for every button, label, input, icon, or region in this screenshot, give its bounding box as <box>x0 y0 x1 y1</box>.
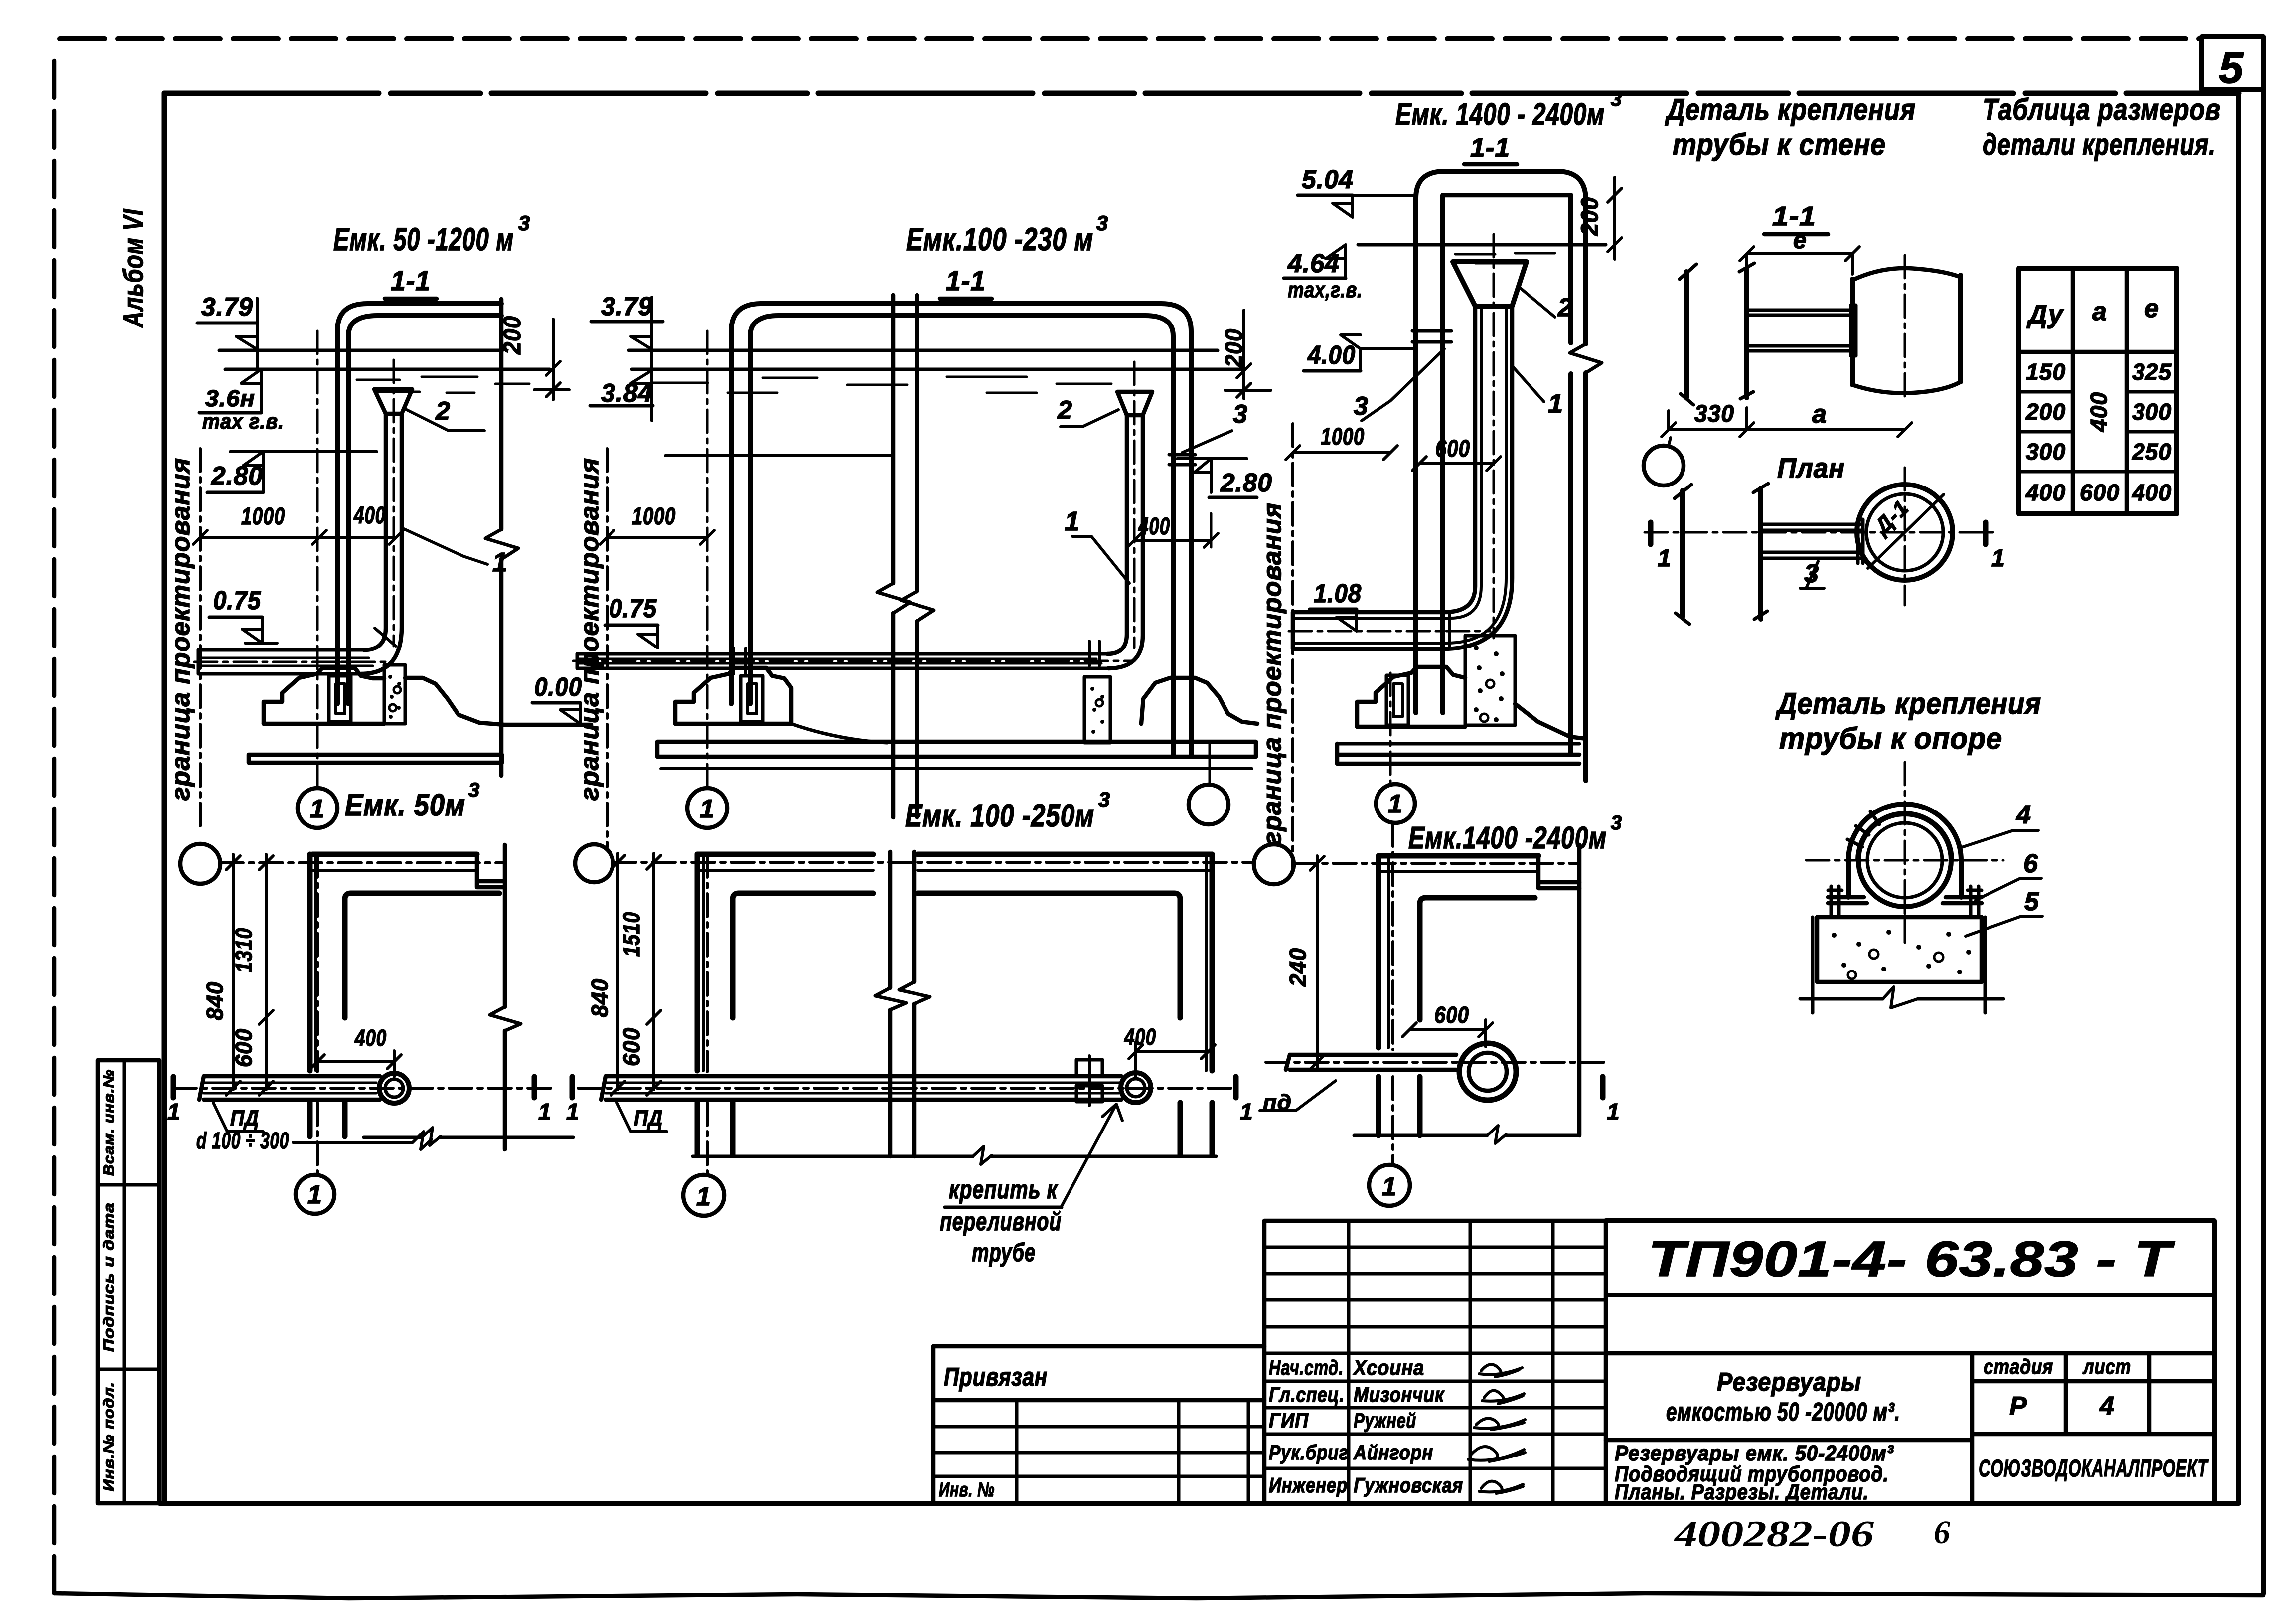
dim lines vertical <box>226 854 240 1095</box>
riser pipe 1 <box>364 414 386 650</box>
wall band horizontal <box>1380 853 1538 859</box>
svg-text:1: 1 <box>1991 545 2005 572</box>
outer right border <box>2261 37 2266 1594</box>
inner frame left <box>162 93 167 1503</box>
svg-text:6: 6 <box>2023 849 2038 878</box>
axis bubble bottom <box>1369 1165 1410 1206</box>
riser pipe (wide) <box>1444 306 1475 612</box>
axis bubble bottom <box>296 1175 334 1214</box>
wall horizontal band <box>312 852 477 857</box>
svg-text:1: 1 <box>566 1099 580 1125</box>
axis bubbles <box>575 844 613 882</box>
dim 200 vertical <box>1577 197 1603 236</box>
svg-text:1: 1 <box>167 1099 181 1125</box>
svg-text:Деталь крепления: Деталь крепления <box>1775 687 2041 720</box>
SECTION 2 <box>573 211 1293 867</box>
svg-text:трубы к опоре: трубы к опоре <box>1779 722 2002 755</box>
section cut marks <box>572 1077 1236 1098</box>
inlet pipe horizontal <box>577 652 1107 656</box>
svg-text:max,г.в.: max,г.в. <box>1288 278 1363 302</box>
staff table <box>1264 1221 1606 1503</box>
svg-text:0.75: 0.75 <box>609 594 657 623</box>
svg-text:2: 2 <box>1057 396 1072 425</box>
svg-text:3: 3 <box>1611 88 1622 110</box>
svg-text:детали крепления.: детали крепления. <box>1983 128 2216 161</box>
pipe circles <box>1858 814 1951 907</box>
svg-text:емкостью 50 -20000 м³.: емкостью 50 -20000 м³. <box>1666 1398 1900 1427</box>
tank outline <box>1416 171 1586 713</box>
table grid <box>2019 268 2177 514</box>
bottom boundary <box>693 1155 1216 1158</box>
svg-text:1: 1 <box>1607 1099 1620 1125</box>
axis lines to bubbles <box>706 331 709 788</box>
svg-text:Гл.спец.: Гл.спец. <box>1269 1383 1345 1406</box>
right match line <box>503 845 507 1149</box>
svg-text:Резервуары: Резервуары <box>1717 1368 1861 1397</box>
PLAN 2 <box>566 844 1254 1267</box>
svg-text:1: 1 <box>1658 545 1672 572</box>
svg-text:840: 840 <box>587 978 612 1017</box>
wall section <box>1686 268 1747 398</box>
signatures <box>1479 1364 1522 1377</box>
boundary line (граница проектирования) <box>199 449 202 830</box>
svg-text:Емк. 50м: Емк. 50м <box>345 788 465 822</box>
inlet pipe horizontal <box>198 648 364 652</box>
SUPPORT DETAIL <box>1775 687 2042 1013</box>
svg-text:Р: Р <box>2009 1392 2027 1421</box>
plan wall <box>1683 488 1761 619</box>
svg-text:трубы к стене: трубы к стене <box>1673 128 1886 161</box>
svg-text:ГИП: ГИП <box>1269 1409 1309 1432</box>
svg-text:Инженер: Инженер <box>1269 1473 1348 1497</box>
axis bubble 1 <box>298 788 337 828</box>
axis bubble 1 <box>687 788 727 828</box>
left support <box>675 668 791 724</box>
svg-text:Емк.100 -230 м: Емк.100 -230 м <box>906 221 1093 257</box>
dim 200 vertical <box>499 316 526 355</box>
svg-text:300: 300 <box>2132 399 2172 425</box>
svg-text:Рук.бриг: Рук.бриг <box>1269 1441 1349 1464</box>
svg-text:1: 1 <box>492 547 508 577</box>
funnel 2 <box>1453 262 1527 306</box>
svg-text:2.80: 2.80 <box>1220 469 1272 497</box>
plan centerlines <box>1645 468 1997 605</box>
svg-text:5: 5 <box>2024 887 2039 916</box>
svg-text:СОЮЗВОДОКАНАЛПРОЕКТ: СОЮЗВОДОКАНАЛПРОЕКТ <box>1979 1456 2209 1482</box>
svg-text:Емк.1400 -2400м: Емк.1400 -2400м <box>1408 821 1607 855</box>
weld stubs <box>1089 641 1099 666</box>
TITLE BLOCK <box>933 1221 2214 1555</box>
svg-text:1: 1 <box>1548 389 1563 419</box>
svg-text:400: 400 <box>2086 392 2112 432</box>
ground lines <box>1800 917 2003 1013</box>
svg-text:граница проектирования: граница проектирования <box>575 458 604 801</box>
svg-text:Мизончик: Мизончик <box>1354 1383 1445 1406</box>
svg-text:Инв. №: Инв. № <box>939 1479 995 1501</box>
outer left border <box>52 61 57 1593</box>
svg-text:1.08: 1.08 <box>1314 579 1362 608</box>
svg-text:3: 3 <box>1233 400 1248 429</box>
bottom-left stamp strip <box>98 1060 159 1503</box>
svg-text:1: 1 <box>307 1180 322 1209</box>
top dashed border <box>60 36 2202 41</box>
riser circle big <box>1459 1043 1516 1100</box>
clamp feet <box>1828 897 1982 903</box>
middle break lines <box>890 852 914 1156</box>
PLAN 1 <box>167 844 573 1214</box>
right wall band <box>918 852 1212 857</box>
svg-text:3: 3 <box>468 779 480 801</box>
wall vertical band <box>307 854 313 1071</box>
left support <box>1357 667 1465 727</box>
inner frame bottom <box>159 1501 2239 1506</box>
svg-text:План: План <box>1777 452 1845 484</box>
left boundary <box>606 449 609 847</box>
svg-text:250: 250 <box>2132 439 2172 465</box>
svg-text:Ружней: Ружней <box>1354 1409 1416 1432</box>
roof bottom / level 3.79 line <box>219 349 502 352</box>
wall below pipe <box>310 1103 345 1136</box>
middle break lines <box>891 295 896 817</box>
svg-text:Подпись и дата: Подпись и дата <box>101 1202 117 1352</box>
svg-text:Инв.№ подл.: Инв.№ подл. <box>101 1382 117 1491</box>
inner frame right <box>2236 90 2241 1503</box>
tank wall inner <box>348 316 501 704</box>
svg-text:1: 1 <box>1065 506 1080 536</box>
water line <box>1358 243 1606 247</box>
axis line horizontal <box>220 861 503 864</box>
inner frame top <box>164 91 2239 96</box>
base slab <box>657 742 1256 757</box>
handwritten archive number <box>1674 1514 1950 1555</box>
clamp strap <box>1848 804 1961 897</box>
bolts <box>1828 886 1982 917</box>
svg-text:1: 1 <box>700 795 715 823</box>
axis bubble bottom <box>683 1175 724 1216</box>
svg-text:4: 4 <box>2099 1392 2115 1421</box>
axis bubble right (blank) <box>1189 785 1228 824</box>
svg-text:5.04: 5.04 <box>1302 165 1354 194</box>
pipe cylinder <box>1852 275 1961 385</box>
tank outline <box>731 304 1191 755</box>
svg-text:4.00: 4.00 <box>1307 341 1356 370</box>
tank wall outer <box>337 304 501 704</box>
bracket plates <box>1747 310 1855 351</box>
base plate line <box>1817 915 1982 920</box>
svg-text:Привязан: Привязан <box>944 1363 1048 1392</box>
svg-text:Всам. инв.№: Всам. инв.№ <box>101 1069 117 1176</box>
svg-text:а: а <box>2092 297 2107 326</box>
svg-text:600: 600 <box>2080 480 2120 505</box>
riser pipe <box>1107 415 1127 654</box>
svg-text:Емк. 100 -250м: Емк. 100 -250м <box>905 798 1094 833</box>
svg-text:600: 600 <box>1434 1002 1469 1028</box>
concrete anchor <box>1084 677 1110 743</box>
svg-text:330: 330 <box>1694 401 1734 427</box>
svg-text:1: 1 <box>310 795 325 823</box>
right support <box>1141 678 1257 724</box>
WALL DETAIL <box>1644 93 2005 624</box>
concrete block <box>1817 917 1982 982</box>
support axis <box>316 331 319 787</box>
svg-text:1-1: 1-1 <box>1772 201 1816 231</box>
SECTION 3 <box>1284 88 1622 855</box>
svg-text:3: 3 <box>1611 812 1622 834</box>
svg-text:d 100 ÷ 300: d 100 ÷ 300 <box>196 1128 289 1153</box>
dim 240 vertical <box>1310 856 1324 1070</box>
svg-text:400: 400 <box>1138 513 1170 540</box>
svg-text:400: 400 <box>2025 480 2066 505</box>
PLAN 3 <box>1254 823 1620 1206</box>
MARGIN STAMPS <box>98 209 159 1503</box>
svg-text:1: 1 <box>1382 1172 1397 1201</box>
album VI vertical label <box>117 209 149 328</box>
svg-text:2: 2 <box>1557 293 1573 322</box>
svg-text:400: 400 <box>354 1025 387 1051</box>
svg-text:1310: 1310 <box>231 928 257 972</box>
axis circle <box>1644 446 1684 486</box>
svg-text:200: 200 <box>499 316 526 355</box>
svg-text:1000: 1000 <box>241 503 285 530</box>
svg-text:1: 1 <box>696 1182 711 1211</box>
axis to bubble <box>1389 673 1392 784</box>
corner notch right <box>1538 856 1579 888</box>
svg-text:Гужновская: Гужновская <box>1354 1473 1463 1497</box>
right match line <box>1577 845 1582 1135</box>
right boundary (shared with sec3) <box>1291 424 1294 867</box>
svg-text:200: 200 <box>2025 399 2066 425</box>
concrete anchor <box>384 665 405 724</box>
svg-text:ПД: ПД <box>634 1106 663 1131</box>
svg-text:стадия: стадия <box>1984 1355 2053 1378</box>
clamp flange <box>1076 1060 1102 1076</box>
right support and ground line <box>405 678 591 725</box>
water line <box>225 368 550 371</box>
svg-text:Ду: Ду <box>2026 300 2064 329</box>
inlet pipe horizontal <box>1293 612 1444 649</box>
section cut marks <box>1651 522 1986 544</box>
concrete anchor <box>1465 636 1515 725</box>
water line <box>632 368 1244 371</box>
left support <box>264 668 384 724</box>
svg-text:1-1: 1-1 <box>946 265 986 296</box>
col 2 <box>2086 392 2112 432</box>
svg-text:3: 3 <box>518 211 530 235</box>
funnel 2 <box>1117 392 1152 415</box>
svg-text:ПД: ПД <box>230 1106 259 1131</box>
plan bracket <box>1761 524 1862 558</box>
dim 200 vertical <box>1221 328 1247 368</box>
svg-text:Альбом VI: Альбом VI <box>117 209 149 328</box>
wall axis vertical <box>316 854 319 1174</box>
main designation box <box>1606 1221 2214 1503</box>
SECTION 1 <box>166 211 591 830</box>
sheet number box 5 <box>2202 37 2263 90</box>
svg-text:6: 6 <box>1934 1514 1950 1551</box>
svg-text:400: 400 <box>2132 480 2172 505</box>
svg-text:граница проектирования: граница проектирования <box>166 458 195 801</box>
svg-text:3.79: 3.79 <box>601 292 653 321</box>
svg-text:а: а <box>1812 400 1827 429</box>
dim lines vertical <box>611 853 625 1095</box>
pipe plan <box>1286 1055 1456 1070</box>
svg-text:Айнгорн: Айнгорн <box>1353 1441 1433 1464</box>
svg-text:325: 325 <box>2132 359 2172 385</box>
svg-text:600: 600 <box>1435 436 1470 462</box>
centerlines <box>1806 762 2003 944</box>
svg-text:1510: 1510 <box>618 912 644 957</box>
svg-text:1: 1 <box>1240 1099 1253 1125</box>
svg-text:150: 150 <box>2026 359 2066 385</box>
right break line <box>499 299 504 776</box>
svg-text:Емк. 50 -1200 м: Емк. 50 -1200 м <box>333 221 514 257</box>
svg-text:3: 3 <box>1096 211 1108 235</box>
svg-text:трубе: трубе <box>972 1238 1036 1267</box>
svg-text:4: 4 <box>2016 801 2031 829</box>
svg-text:1000: 1000 <box>632 503 676 530</box>
svg-text:2: 2 <box>435 397 451 426</box>
svg-text:600: 600 <box>231 1028 257 1067</box>
svg-text:1-1: 1-1 <box>1470 133 1510 162</box>
svg-text:400282-06: 400282-06 <box>1674 1514 1874 1555</box>
base slab <box>249 755 502 763</box>
wall corner notch right <box>477 854 505 887</box>
svg-text:1: 1 <box>1388 790 1403 818</box>
svg-text:200: 200 <box>1577 197 1603 236</box>
riser circle <box>379 1073 409 1103</box>
base slab <box>1337 742 1579 746</box>
plan pipe circles <box>1857 485 1953 580</box>
svg-text:840: 840 <box>202 981 228 1020</box>
svg-text:крепить к: крепить к <box>949 1175 1058 1204</box>
svg-text:1000: 1000 <box>1321 424 1365 450</box>
attachment stamp table <box>933 1346 1264 1503</box>
svg-text:граница проектирования: граница проектирования <box>1258 502 1287 845</box>
svg-text:лист: лист <box>2082 1355 2131 1378</box>
svg-text:Емк. 1400 - 2400м: Емк. 1400 - 2400м <box>1395 97 1605 132</box>
svg-text:5: 5 <box>2219 43 2244 92</box>
level line 3.79 <box>629 349 1218 352</box>
interior line <box>665 454 892 457</box>
svg-text:Нач.стд.: Нач.стд. <box>1269 1356 1344 1379</box>
svg-text:1: 1 <box>538 1099 552 1125</box>
svg-text:400: 400 <box>353 502 386 529</box>
svg-text:Деталь крепления: Деталь крепления <box>1665 93 1916 126</box>
section cut marks <box>1600 1077 1606 1098</box>
funnel 2 <box>374 389 412 414</box>
right slope to wall <box>1515 704 1586 739</box>
outer bottom border <box>54 1593 2263 1598</box>
svg-text:0.75: 0.75 <box>213 586 261 615</box>
svg-text:3.79: 3.79 <box>201 293 253 322</box>
svg-text:1-1: 1-1 <box>391 265 431 296</box>
svg-text:Хсоина: Хсоина <box>1353 1356 1424 1379</box>
section cut marks <box>173 1077 534 1098</box>
svg-text:переливной: переливной <box>940 1207 1062 1236</box>
SIZE TABLE <box>1983 93 2221 514</box>
pipe plan <box>601 1076 1121 1100</box>
svg-text:240: 240 <box>1285 948 1311 987</box>
wall vertical band <box>1376 856 1381 1048</box>
pipe plan <box>199 1076 380 1100</box>
svg-text:300: 300 <box>2026 439 2066 465</box>
bottom boundary <box>364 1136 573 1139</box>
axis bubble left <box>1254 844 1294 884</box>
svg-text:Таблица размеров: Таблица размеров <box>1983 93 2221 126</box>
roof bottom line <box>1443 193 1571 198</box>
axis bubble top <box>180 844 220 884</box>
svg-text:600: 600 <box>618 1027 644 1066</box>
left wall band <box>697 852 873 857</box>
riser circle <box>1121 1073 1151 1103</box>
svg-text:3.6н: 3.6н <box>205 385 255 411</box>
svg-text:е: е <box>2144 294 2159 323</box>
svg-text:ТП901-4- 63.83 - Т: ТП901-4- 63.83 - Т <box>1648 1231 2175 1287</box>
svg-text:3: 3 <box>1098 788 1110 811</box>
bottom boundary <box>1354 1134 1579 1137</box>
svg-text:е: е <box>1793 227 1807 254</box>
svg-text:Планы. Разрезы. Детали.: Планы. Разрезы. Детали. <box>1615 1480 1869 1504</box>
